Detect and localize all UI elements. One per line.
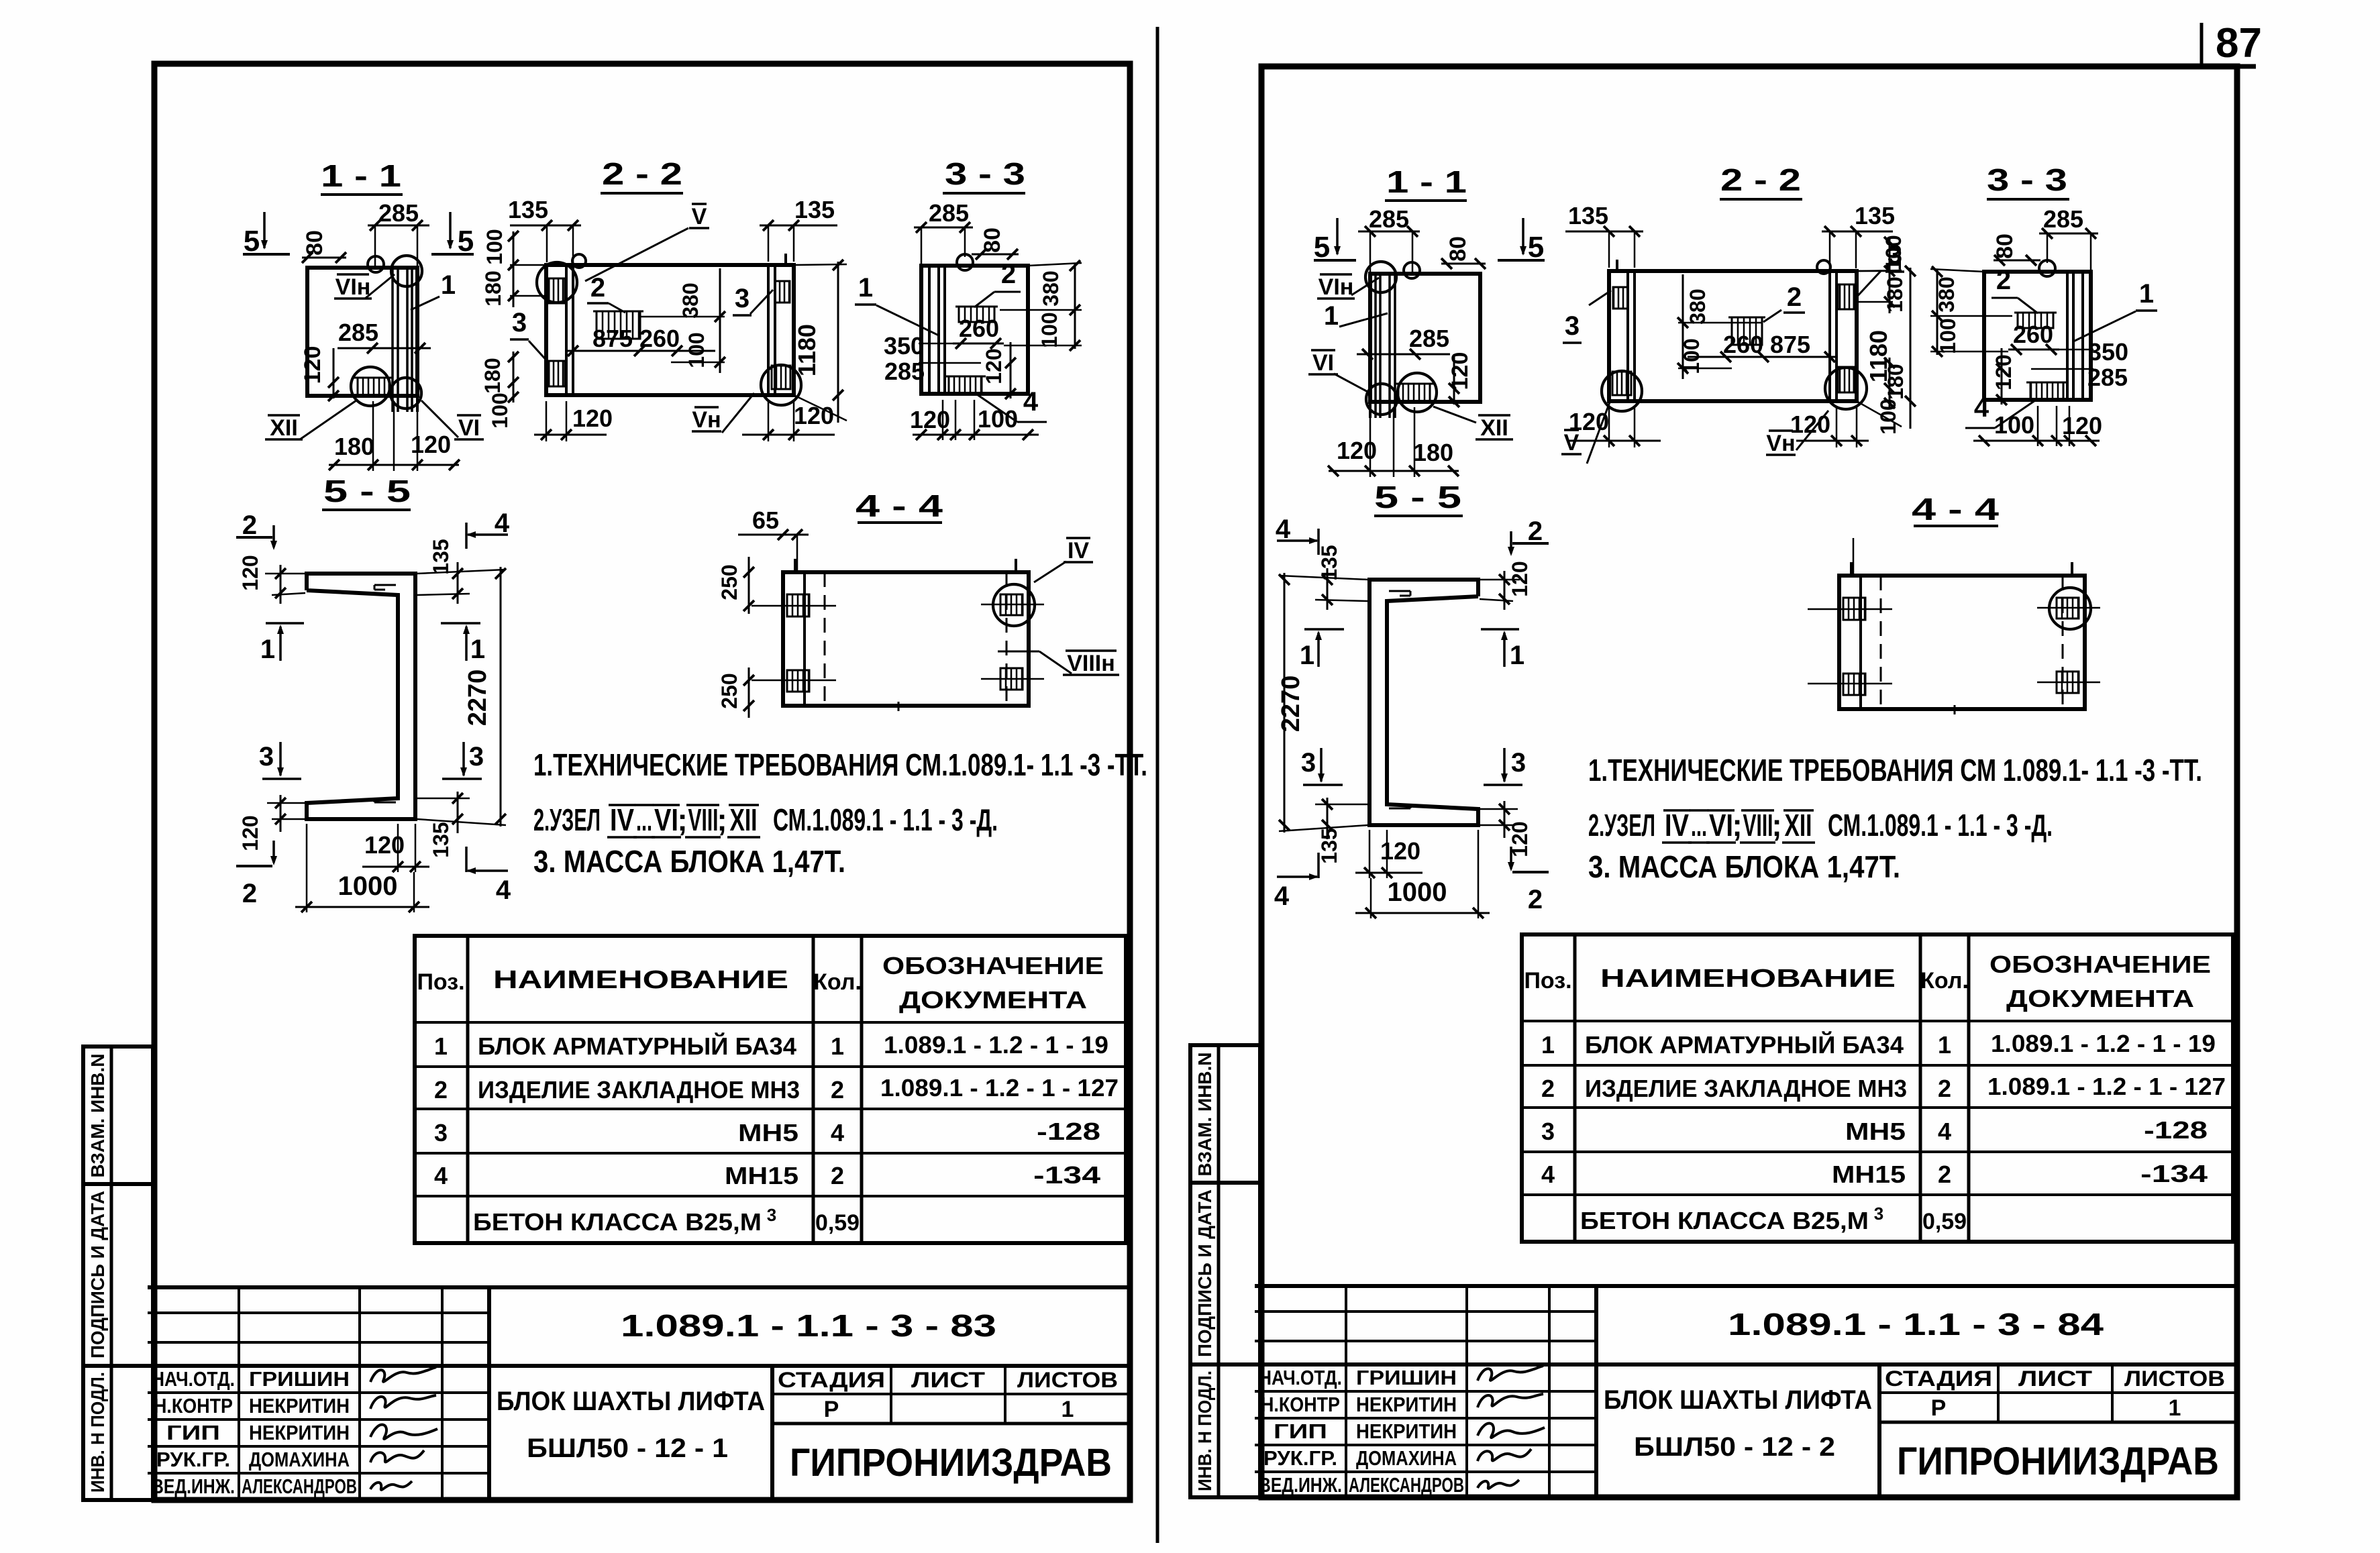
embedded plate right bottom [2057,672,2079,693]
svg-text:2: 2 [242,511,257,540]
svg-text:100: 100 [482,229,507,264]
svg-text:2: 2 [1528,517,1543,546]
svg-text:120: 120 [238,555,262,590]
embedded plate left bottom [549,361,565,386]
embedded plate right top [1613,287,1628,309]
svg-text:4: 4 [1938,1118,1951,1145]
block outline 2-2 [1609,271,1857,401]
embedded plate left bottom [787,670,809,692]
svg-text:875: 875 [1770,331,1810,358]
svg-text:0,59: 0,59 [1922,1209,1967,1234]
svg-text:3: 3 [512,308,527,337]
svg-text:СТАДИЯ: СТАДИЯ [1885,1367,1992,1391]
svg-text:120: 120 [238,815,262,851]
embedded plate right top [1000,594,1023,615]
svg-text:120: 120 [572,405,613,432]
svg-text:ИНВ. Н ПОДЛ.: ИНВ. Н ПОДЛ. [87,1372,108,1493]
embedded plate left top [1838,284,1854,309]
svg-text:РУК.ГР.: РУК.ГР. [1263,1446,1337,1470]
bottom dimension line 180 120 [1329,470,1459,472]
svg-text:1: 1 [1324,301,1339,331]
node circle bottom left [1825,368,1867,409]
svg-text:1: 1 [1300,641,1314,670]
embedded plate right top [2057,598,2079,619]
svg-text:ГРИШИН: ГРИШИН [1356,1366,1457,1389]
svg-text:135: 135 [1855,202,1895,229]
svg-text:ГИПРОНИИЗДРАВ: ГИПРОНИИЗДРАВ [1897,1440,2219,1483]
svg-text:380: 380 [678,282,703,318]
svg-text:;: ; [1732,808,1742,843]
svg-text:3: 3 [1565,311,1580,341]
svg-text:МН15: МН15 [725,1162,798,1189]
svg-text:120: 120 [2062,412,2102,439]
sheet 1 border frame [154,64,1130,1500]
svg-text:ГИП: ГИП [1274,1420,1327,1443]
bottom dimension 120 100 [1973,440,2100,442]
svg-text:3 - 3: 3 - 3 [1987,162,2067,197]
svg-text:260: 260 [639,325,680,352]
svg-text:VI: VI [1709,808,1733,843]
svg-text:180: 180 [480,358,505,393]
svg-text:285: 285 [338,319,378,346]
node circle bottom right [391,378,421,409]
side strip PODPIS I DATA [1190,1183,1260,1364]
svg-text:3: 3 [469,742,484,771]
svg-text:XII: XII [730,802,758,837]
svg-text:65: 65 [752,506,779,534]
svg-text:100: 100 [488,392,512,428]
svg-text:5: 5 [1314,231,1330,264]
svg-text:2: 2 [1938,1161,1951,1188]
svg-text:100: 100 [1037,312,1062,347]
svg-text:1: 1 [858,273,873,303]
node circle IV [2049,588,2091,629]
svg-text:РУК.ГР.: РУК.ГР. [156,1448,230,1471]
svg-text:4 - 4: 4 - 4 [1912,492,2000,527]
svg-text:1.089.1 - 1.2 - 1 - 19: 1.089.1 - 1.2 - 1 - 19 [1991,1030,2216,1057]
svg-text:;: ; [1771,808,1781,843]
embedded plate left bottom [1838,367,1854,392]
svg-text:135: 135 [1568,202,1608,229]
svg-text:285: 285 [1409,325,1449,352]
svg-text:VI: VI [654,802,678,837]
svg-text:-134: -134 [2140,1160,2208,1187]
svg-text:СМ.1.089.1 - 1.1 - 3 -Д.: СМ.1.089.1 - 1.1 - 3 -Д. [1828,808,2053,843]
node circle bottom right [761,365,801,405]
block outline plan 4-4 [1839,576,2085,709]
top edge pins [1850,562,1853,576]
svg-text:СМ.1.089.1 - 1.1 - 3 -Д.: СМ.1.089.1 - 1.1 - 3 -Д. [773,802,998,837]
svg-text:250: 250 [717,564,741,600]
svg-text:ДОМАХИНА: ДОМАХИНА [1356,1446,1457,1470]
svg-text:БЛОК АРМАТУРНЫЙ БА34: БЛОК АРМАТУРНЫЙ БА34 [478,1032,796,1060]
svg-text:БЕТОН КЛАССА В25,М: БЕТОН КЛАССА В25,М [1580,1207,1869,1234]
side strip INV N PODL [83,1366,153,1500]
svg-text:ВЗАМ. ИНВ.N: ВЗАМ. ИНВ.N [87,1054,108,1178]
svg-text:135: 135 [429,822,453,857]
svg-text:135: 135 [508,196,548,223]
svg-text:VI: VI [1312,350,1334,376]
title block frame [1255,1284,2237,1288]
svg-text:НЕКРИТИН: НЕКРИТИН [249,1421,350,1444]
stage list cells [1879,1391,2237,1394]
svg-text:3: 3 [259,742,274,771]
inner wall line left [1859,576,1862,709]
svg-text:ПОДПИСЬ И ДАТА: ПОДПИСЬ И ДАТА [87,1191,108,1358]
svg-text:100: 100 [1994,411,2034,439]
svg-text:1: 1 [1938,1031,1951,1059]
svg-text:100: 100 [1936,318,1960,354]
svg-text:3: 3 [735,284,749,313]
svg-text:1.ТЕХНИЧЕСКИЕ ТРЕБОВАНИЯ СМ: 1.ТЕХНИЧЕСКИЕ ТРЕБОВАНИЯ СМ 1.089.1- 1.1… [1588,753,2202,788]
svg-text:2: 2 [1541,1075,1555,1102]
parts table frame [1522,934,2233,1242]
svg-text:1: 1 [2169,1395,2181,1421]
cut marker 1 left [266,622,304,625]
svg-text:XII: XII [1785,808,1812,843]
embedded plate left top [549,278,565,303]
svg-text:3: 3 [767,1205,776,1225]
svg-text:100: 100 [978,405,1018,433]
svg-text:120: 120 [910,406,950,433]
svg-text:1000: 1000 [1388,877,1447,907]
svg-text:4: 4 [1023,387,1039,417]
flange channel lines [391,268,394,412]
side strip INV N PODL [1190,1364,1260,1497]
svg-text:НЕКРИТИН: НЕКРИТИН [249,1394,350,1417]
svg-text:ЛИСТ: ЛИСТ [911,1368,986,1392]
page divider line [1156,27,1159,1543]
svg-text:5 - 5: 5 - 5 [323,474,411,508]
svg-text:ГИПРОНИИЗДРАВ: ГИПРОНИИЗДРАВ [790,1441,1112,1485]
bottom flange step detail [374,802,396,804]
concrete block outline 1-1 [1370,274,1480,402]
flange channel lines [1394,274,1396,418]
svg-text:80: 80 [980,227,1005,253]
svg-text:285: 285 [1369,205,1409,233]
svg-text:2.УЗЕЛ: 2.УЗЕЛ [533,802,601,837]
channel lines left [928,266,931,394]
svg-text:БЕТОН КЛАССА В25,М: БЕТОН КЛАССА В25,М [473,1208,762,1236]
svg-text:Vн: Vн [692,407,721,433]
svg-text:4: 4 [1274,881,1290,911]
svg-text:2: 2 [1996,266,2011,295]
parts table row lines [1522,1020,2233,1022]
svg-text:260: 260 [1723,331,1763,358]
svg-text:-134: -134 [1033,1161,1100,1189]
embedded plate right bottom [1000,668,1023,690]
svg-text:АЛЕКСАНДРОВ: АЛЕКСАНДРОВ [242,1475,357,1498]
side strip BZAM INV [83,1047,153,1184]
svg-text:...: ... [636,802,652,837]
svg-text:2: 2 [242,879,257,908]
svg-text:НАИМЕНОВАНИЕ: НАИМЕНОВАНИЕ [1600,965,1896,993]
svg-text:1: 1 [1541,1031,1555,1059]
svg-text:135: 135 [1317,545,1341,580]
svg-text:285: 285 [378,199,419,227]
svg-text:285: 285 [2087,364,2128,391]
top border extension right sheet [2237,64,2256,69]
svg-text:250: 250 [717,673,741,708]
svg-text:VI: VI [458,415,480,441]
embedded plate left bottom [1843,674,1865,695]
svg-text:4 - 4: 4 - 4 [856,488,943,523]
svg-text:3 - 3: 3 - 3 [945,156,1025,191]
svg-text:1.089.1 - 1.2 - 1 - 19: 1.089.1 - 1.2 - 1 - 19 [884,1031,1108,1059]
svg-text:1000: 1000 [338,871,398,901]
svg-text:;: ; [717,802,727,837]
bottom flange step detail [1389,808,1410,810]
svg-text:ДОКУМЕНТА: ДОКУМЕНТА [2006,985,2194,1012]
lifting loop [957,254,973,270]
left channel lines [565,265,568,395]
bottom dimension 120 100 [913,434,1039,436]
sheet 2 border frame [1261,66,2237,1497]
embedded plate MH3 center [959,307,994,322]
svg-text:VIн: VIн [1318,274,1354,300]
embedded plate MH3 center [1732,317,1762,345]
svg-text:VIн: VIн [335,274,371,300]
svg-text:Кол.: Кол. [813,969,862,995]
svg-text:80: 80 [1445,236,1471,262]
svg-text:1: 1 [441,270,456,300]
svg-text:VIII: VIII [1743,808,1773,843]
plate centerlines [752,605,836,607]
svg-text:2: 2 [590,273,605,303]
svg-text:1.ТЕХНИЧЕСКИЕ ТРЕБОВАНИЯ СМ.: 1.ТЕХНИЧЕСКИЕ ТРЕБОВАНИЯ СМ.1.089.1- 1.1… [533,747,1147,782]
rebar centerline right dashed [1006,572,1008,706]
svg-text:2 - 2: 2 - 2 [602,156,682,191]
top flange step detail [1389,590,1410,592]
svg-text:ДОМАХИНА: ДОМАХИНА [249,1448,350,1471]
svg-text:ВЕД.ИНЖ.: ВЕД.ИНЖ. [1259,1473,1342,1497]
cut marker 1 right [441,622,480,625]
svg-text:1: 1 [260,635,275,664]
svg-text:380: 380 [1039,270,1063,306]
svg-text:120: 120 [794,402,834,429]
svg-text:ГРИШИН: ГРИШИН [249,1367,350,1391]
rebar centerline left dashed [1880,576,1882,709]
svg-text:1: 1 [470,635,485,664]
svg-text:ЛИСТ: ЛИСТ [2018,1367,2093,1391]
svg-text:-128: -128 [1037,1118,1100,1145]
svg-text:2: 2 [1001,260,1016,289]
svg-text:120: 120 [1790,411,1830,438]
svg-text:5: 5 [244,225,260,258]
right channel lines [1633,271,1636,401]
svg-text:АЛЕКСАНДРОВ: АЛЕКСАНДРОВ [1349,1473,1464,1497]
embedded plate MH3 center [2018,313,2053,328]
svg-text:ВЗАМ. ИНВ.N: ВЗАМ. ИНВ.N [1194,1053,1215,1177]
embedded plate right bottom [1612,372,1631,395]
svg-text:;: ; [677,802,687,837]
svg-text:4: 4 [1541,1161,1555,1188]
svg-text:120: 120 [411,431,451,458]
svg-text:VIII: VIII [688,802,719,837]
svg-text:IV: IV [1068,538,1089,564]
node circle bottom right [1366,384,1397,415]
svg-text:ВЕД.ИНЖ.: ВЕД.ИНЖ. [152,1475,235,1498]
svg-text:180: 180 [481,270,505,306]
svg-text:2270: 2270 [1277,676,1305,733]
parts table frame [415,936,1126,1243]
channel lines left [2081,272,2084,400]
title block small rows [148,1311,489,1314]
svg-text:ОБОЗНАЧЕНИЕ: ОБОЗНАЧЕНИЕ [882,952,1104,979]
svg-text:5 - 5: 5 - 5 [1374,480,1461,515]
lifting loop [1404,262,1420,278]
svg-text:СТАДИЯ: СТАДИЯ [778,1368,885,1392]
svg-text:Поз.: Поз. [1524,968,1571,994]
dimension 875 260 [1688,356,1835,358]
node circle bottom right [1602,371,1642,411]
svg-text:Р: Р [824,1397,839,1422]
svg-text:1: 1 [831,1032,844,1060]
svg-text:3. МАССА БЛОКА 1,47Т.: 3. МАССА БЛОКА 1,47Т. [533,844,845,879]
svg-text:1: 1 [1510,641,1524,670]
svg-text:1.089.1 - 1.1 - 3 - 83: 1.089.1 - 1.1 - 3 - 83 [621,1308,996,1343]
svg-text:120: 120 [982,348,1006,384]
rebar centerline right dashed [2062,576,2064,709]
svg-text:ЛИСТОВ: ЛИСТОВ [1017,1368,1118,1392]
svg-text:МН5: МН5 [738,1119,798,1146]
cut marker 1 right [1304,628,1344,631]
svg-text:БЛОК ШАХТЫ ЛИФТА: БЛОК ШАХТЫ ЛИФТА [497,1387,765,1416]
svg-text:87: 87 [2216,20,2262,66]
svg-text:3: 3 [1511,748,1526,778]
svg-text:3. МАССА БЛОКА 1,47Т.: 3. МАССА БЛОКА 1,47Т. [1588,849,1900,884]
svg-text:1.089.1 - 1.1 - 3 - 84: 1.089.1 - 1.1 - 3 - 84 [1728,1307,2104,1342]
svg-text:2 - 2: 2 - 2 [1720,162,1801,197]
svg-text:ИЗДЕЛИЕ ЗАКЛАДНОЕ МН3: ИЗДЕЛИЕ ЗАКЛАДНОЕ МН3 [1585,1075,1907,1102]
node circle top right [391,256,422,286]
svg-text:БШЛ50 - 12 - 2: БШЛ50 - 12 - 2 [1634,1432,1835,1462]
svg-text:1: 1 [2139,279,2154,309]
svg-text:МН5: МН5 [1845,1118,1906,1145]
svg-text:100: 100 [1876,398,1900,434]
svg-text:0,59: 0,59 [815,1210,860,1236]
svg-text:380: 380 [1686,288,1710,324]
title block name rows [148,1391,489,1394]
svg-text:285: 285 [884,358,925,385]
svg-text:Кол.: Кол. [1920,968,1969,994]
embedded plate left top [1843,598,1865,620]
svg-text:Н.КОНТР: Н.КОНТР [154,1394,233,1417]
svg-text:ИНВ. Н ПОДЛ.: ИНВ. Н ПОДЛ. [1194,1371,1215,1491]
svg-text:2270: 2270 [464,670,492,727]
svg-text:4: 4 [831,1119,844,1146]
svg-text:2.УЗЕЛ: 2.УЗЕЛ [1588,808,1655,843]
stage list cells [772,1393,1130,1395]
svg-text:ОБОЗНАЧЕНИЕ: ОБОЗНАЧЕНИЕ [1989,951,2211,978]
bottom dimension line 180 120 [329,464,459,466]
svg-text:ДОКУМЕНТА: ДОКУМЕНТА [899,986,1087,1014]
svg-text:ИЗДЕЛИЕ ЗАКЛАДНОЕ МН3: ИЗДЕЛИЕ ЗАКЛАДНОЕ МН3 [478,1076,800,1104]
svg-text:1.089.1 - 1.2 - 1 - 127: 1.089.1 - 1.2 - 1 - 127 [1987,1073,2226,1100]
node circle top left [537,262,577,303]
svg-text:1180: 1180 [793,324,821,376]
svg-text:180: 180 [1413,439,1453,466]
svg-text:875: 875 [592,325,633,352]
embedded plate bottom with hatch [2030,382,2063,400]
side strip PODPIS I DATA [83,1184,153,1366]
svg-text:1 - 1: 1 - 1 [1386,164,1467,199]
svg-text:3: 3 [1887,240,1902,270]
svg-text:5: 5 [1528,231,1544,264]
concrete block outline 3-3 [921,266,1028,394]
svg-text:350: 350 [884,332,924,360]
lifting loop [368,256,384,272]
top flange step detail [374,584,396,586]
lifting loop [1817,260,1830,274]
svg-text:Н.КОНТР: Н.КОНТР [1261,1393,1340,1416]
svg-text:V: V [692,204,707,229]
lifting loop [2039,260,2055,276]
svg-text:180: 180 [334,433,374,460]
left channel lines [1835,271,1838,401]
concrete block outline 1-1 [307,268,417,396]
node circle IV [993,584,1035,626]
embedded plate left top [787,594,809,617]
node circle at plate [351,367,390,406]
title block name rows [1255,1390,1596,1393]
svg-text:3: 3 [1301,748,1316,778]
svg-text:XII: XII [1480,415,1508,441]
svg-text:IV: IV [610,802,634,837]
channel profile 5-5 [1369,580,1478,825]
svg-text:2: 2 [1528,885,1543,914]
embedded plate right top [775,281,790,303]
svg-text:ЛИСТОВ: ЛИСТОВ [2124,1367,2225,1391]
svg-text:...: ... [1691,808,1707,843]
svg-text:3: 3 [1541,1118,1555,1145]
svg-text:1.089.1 - 1.2 - 1 - 127: 1.089.1 - 1.2 - 1 - 127 [880,1074,1119,1102]
embedded plate bottom with hatch [949,376,982,394]
svg-text:XII: XII [270,415,298,441]
svg-text:80: 80 [302,230,327,256]
embedded plate MH3 center [597,311,640,339]
svg-text:285: 285 [2043,205,2083,233]
svg-text:120: 120 [1569,408,1609,435]
svg-text:2: 2 [434,1076,448,1104]
lifting loop [572,254,586,268]
svg-text:IV: IV [1665,808,1689,843]
svg-text:ПОДПИСЬ И ДАТА: ПОДПИСЬ И ДАТА [1194,1189,1215,1357]
svg-text:120: 120 [1337,437,1377,464]
svg-text:БЛОК АРМАТУРНЫЙ БА34: БЛОК АРМАТУРНЫЙ БА34 [1585,1030,1904,1059]
right channel lines [767,265,770,395]
top edge pins [794,559,796,572]
node circle top right [1365,262,1396,292]
svg-text:285: 285 [929,199,969,227]
svg-text:Поз.: Поз. [417,969,464,995]
svg-text:120: 120 [300,346,325,384]
block outline plan 4-4 [783,572,1029,706]
svg-text:Р: Р [1931,1395,1947,1421]
svg-text:НЕКРИТИН: НЕКРИТИН [1356,1420,1457,1443]
svg-text:НАЧ.ОТД.: НАЧ.ОТД. [152,1367,235,1391]
svg-text:1: 1 [1062,1397,1074,1422]
side strip BZAM INV [1190,1045,1260,1183]
title block frame [148,1285,1130,1289]
concrete block outline 3-3 [1984,272,2091,400]
svg-text:НАИМЕНОВАНИЕ: НАИМЕНОВАНИЕ [493,966,788,994]
embedded plate right bottom [772,366,790,389]
svg-text:БЛОК ШАХТЫ ЛИФТА: БЛОК ШАХТЫ ЛИФТА [1604,1385,1872,1415]
svg-text:-128: -128 [2144,1116,2208,1144]
svg-text:НЕКРИТИН: НЕКРИТИН [1356,1393,1457,1416]
svg-text:180: 180 [1883,364,1908,399]
